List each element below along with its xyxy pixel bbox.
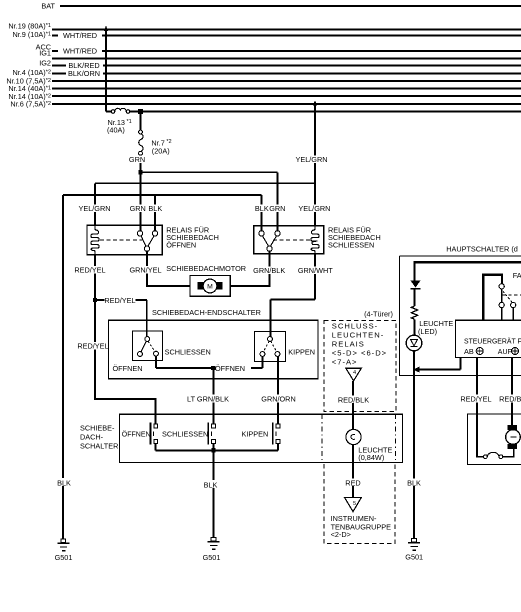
svg-text:(0,84W): (0,84W) <box>358 453 384 462</box>
svg-text:ÖFFNEN: ÖFFNEN <box>122 431 151 439</box>
svg-text:(40A): (40A) <box>107 125 125 134</box>
svg-text:RED/YEL: RED/YEL <box>74 266 105 275</box>
node Nr.4 (10A) bus line BLK/ORN <box>12 68 521 78</box>
svg-text:M: M <box>207 284 213 291</box>
box SCHIEBEDACHSCHALTER <box>80 414 403 462</box>
wire GRN rail to both relays <box>138 170 277 231</box>
node Nr.14 (40A) bus line <box>8 84 521 93</box>
svg-text:BLK: BLK <box>148 204 162 213</box>
svg-text:ÖFFNEN: ÖFFNEN <box>166 241 196 250</box>
node Nr.6 (7,5A) bus line <box>10 100 521 109</box>
lamp LEUCHTE (0,84W) <box>346 429 393 462</box>
svg-text:RED/YEL: RED/YEL <box>460 395 491 404</box>
svg-text:RELAIS: RELAIS <box>332 340 365 349</box>
wire bridge to main switch contacts <box>483 275 502 321</box>
svg-text:YEL/GRN: YEL/GRN <box>295 155 327 164</box>
svg-text:FA: FA <box>513 271 521 280</box>
svg-text:BAT: BAT <box>41 2 55 11</box>
node IG2 bus line BLK/RED <box>39 58 521 70</box>
node BAT bus line <box>41 2 521 11</box>
svg-text:RED/YEL: RED/YEL <box>104 296 135 305</box>
svg-text:WHT/RED: WHT/RED <box>63 47 97 56</box>
svg-text:SCHIEBEDACH-ENDSCHALTER: SCHIEBEDACH-ENDSCHALTER <box>152 308 261 317</box>
svg-text:BLK: BLK <box>407 478 421 487</box>
svg-text:<5-D> <6-D>: <5-D> <6-D> <box>332 349 387 358</box>
wire RED/BLK to motor box <box>499 358 521 426</box>
svg-text:LEUCHTEN-: LEUCHTEN- <box>332 330 384 339</box>
switch S1 end switch SCHLIESSEN/ÖFFNEN <box>113 331 211 373</box>
relay K1 RELAIS FÜR SCHIEBEDACH ÖFFNEN <box>87 225 219 254</box>
breaker circuit breaker <box>484 452 503 458</box>
svg-text:AB: AB <box>464 347 474 356</box>
wire RED/YEL branch to end switch <box>93 296 147 337</box>
motor M2 <box>506 425 521 449</box>
svg-text:ÖFFNEN: ÖFFNEN <box>113 364 143 373</box>
box HAUPTSCHALTER <box>399 244 521 375</box>
svg-text:<2-D>: <2-D> <box>331 530 351 539</box>
switch S2 end switch ÖFFNEN/KIPPEN <box>254 331 315 361</box>
LED D2 LEUCHTE (LED) <box>406 319 453 351</box>
wire RED/BLK triangle to lamp <box>338 381 369 430</box>
svg-text:YEL/GRN: YEL/GRN <box>298 204 330 213</box>
svg-text:SCHIEBEDACHMOTOR: SCHIEBEDACHMOTOR <box>166 264 246 273</box>
fuse Nr.7 (20A) <box>139 112 172 156</box>
box SCHLUSS-LEUCHTEN-RELAIS (dashed) <box>324 310 396 412</box>
diode D1 <box>411 281 421 306</box>
svg-text:IG2: IG2 <box>39 58 51 67</box>
wire common bus of buttons <box>156 448 278 452</box>
node ACC bus line WHT/RED <box>36 43 521 56</box>
wire YEL/GRN rail to both relay coils <box>95 183 315 225</box>
svg-text:WHT/RED: WHT/RED <box>63 31 97 40</box>
svg-text:HAUPTSCHALTER (d: HAUPTSCHALTER (d <box>446 244 518 253</box>
svg-text:SCHIEBE-: SCHIEBE- <box>80 423 115 432</box>
svg-text:KIPPEN: KIPPEN <box>288 347 315 356</box>
wire GRN/BLK relay K2 to motor <box>230 251 285 286</box>
wire RED lamp to triangle 5 <box>344 445 362 498</box>
connector terminal 4 (triangle) <box>346 368 361 381</box>
node Nr.14 (10A) bus line <box>8 92 521 101</box>
fuse Nr.13 (40A) <box>107 108 132 134</box>
switch S6 main switch <box>499 271 521 320</box>
node Nr.19 (80A) bus line <box>8 22 521 31</box>
svg-text:BLK: BLK <box>204 480 218 489</box>
svg-text:IG1: IG1 <box>39 49 51 58</box>
svg-text:LT GRN/BLK: LT GRN/BLK <box>187 395 229 404</box>
switch S5 push button KIPPEN <box>242 423 281 451</box>
svg-text:BLK: BLK <box>255 204 269 213</box>
ground G501 middle <box>203 538 221 563</box>
svg-text:(LED): (LED) <box>418 327 437 336</box>
svg-text:GRN/ORN: GRN/ORN <box>261 395 295 404</box>
svg-text:BLK: BLK <box>57 478 71 487</box>
svg-text:GRN/YEL: GRN/YEL <box>129 266 161 275</box>
svg-text:G501: G501 <box>405 553 423 562</box>
motor M1 SCHIEBEDACHMOTOR <box>166 264 246 296</box>
svg-text:RED: RED <box>345 478 360 487</box>
box motor unit right <box>467 414 521 465</box>
svg-text:STEUERGERÄT FÜ: STEUERGERÄT FÜ <box>464 338 521 346</box>
wire GRN/ORN to KIPPEN button <box>261 356 296 424</box>
node wire labels above relays <box>78 204 330 213</box>
connector terminal 5 (triangle) <box>345 498 362 512</box>
wire fuse output line to right edge <box>130 111 521 113</box>
svg-text:(20A): (20A) <box>152 146 170 155</box>
svg-text:Nr.9 (10A)*1: Nr.9 (10A)*1 <box>12 30 51 39</box>
wire BLK from buttons to ground <box>202 450 219 537</box>
svg-text:KIPPEN: KIPPEN <box>242 430 269 439</box>
node IG1 bus line <box>39 49 521 59</box>
svg-text:Nr.6 (7,5A)*2: Nr.6 (7,5A)*2 <box>10 100 51 109</box>
svg-text:YEL/GRN: YEL/GRN <box>78 204 110 213</box>
wire GRN/WHT relay K2 to end switch <box>271 254 334 337</box>
wire BLK left ground rail <box>55 195 72 539</box>
svg-text:GRN: GRN <box>130 204 146 213</box>
svg-text:GRN: GRN <box>269 204 285 213</box>
svg-text:SCHLIESSEN: SCHLIESSEN <box>162 430 208 439</box>
wire LT GRN/BLK to SCHLIESSEN button <box>186 368 231 424</box>
wire from STEUERGERÄT to LED cathode with arrow <box>413 358 461 373</box>
svg-text:5: 5 <box>353 501 356 507</box>
resistor R1 <box>411 306 417 319</box>
svg-text:GRN/WHT: GRN/WHT <box>298 266 333 275</box>
svg-text:G501: G501 <box>55 553 73 562</box>
svg-text:(4-Türer): (4-Türer) <box>364 310 393 319</box>
node Nr.9 (10A) bus line WHT/RED <box>12 30 521 40</box>
wire inside motor box <box>477 414 484 457</box>
switch S4 push button SCHLIESSEN <box>162 423 216 451</box>
wire feed from Nr.19 bus down to fuse Nr.13 <box>104 26 112 112</box>
svg-text:RED/YEL: RED/YEL <box>77 342 108 351</box>
ground G501 left <box>55 539 73 562</box>
wire GRN/YEL relay K1 to motor <box>129 251 190 286</box>
wire thick feed inside HAUPTSCHALTER <box>415 262 521 281</box>
svg-text:ÖFFNEN: ÖFFNEN <box>215 364 245 373</box>
svg-text:BLK/ORN: BLK/ORN <box>68 69 100 78</box>
box INSTRUMENTENBAUGRUPPE (dashed) <box>324 464 395 544</box>
svg-text:AUF: AUF <box>498 349 512 356</box>
wire link between end switches <box>156 356 263 373</box>
svg-text:SCHALTER: SCHALTER <box>80 441 118 450</box>
svg-text:<7-A>: <7-A> <box>332 358 358 367</box>
switch S3 push button ÖFFNEN <box>122 423 158 451</box>
wire RED/YEL from relay K1 coil down <box>74 255 109 400</box>
box SCHIEBEDACH-ENDSCHALTER <box>109 308 319 379</box>
svg-text:G501: G501 <box>203 553 221 562</box>
box STEUERGERÄT <box>455 320 521 357</box>
node Nr.10 (7,5A) bus line <box>6 76 521 85</box>
svg-text:4: 4 <box>353 370 356 376</box>
wire YEL/GRN drop from Nr.6 bus <box>295 100 327 225</box>
wire RED/YEL to motor box <box>460 358 491 415</box>
ground G501 right <box>405 539 423 562</box>
wire RED/YEL elbow to ÖFFNEN button <box>95 399 156 424</box>
svg-text:SCHLIESSEN: SCHLIESSEN <box>165 347 211 356</box>
svg-text:RED/BLK: RED/BLK <box>338 395 369 404</box>
node junction fuse line / GRN drop <box>138 109 143 114</box>
svg-text:GRN/BLK: GRN/BLK <box>253 266 285 275</box>
wire BLK rail relays to ground rail <box>63 195 262 231</box>
svg-text:SCHLUSS-: SCHLUSS- <box>332 321 378 330</box>
svg-text:SCHLIESSEN: SCHLIESSEN <box>328 241 374 250</box>
svg-text:RED/B: RED/B <box>499 395 521 404</box>
wire BLK LED to ground <box>406 351 423 539</box>
wire breaker to motor <box>503 449 514 457</box>
wire GRN from fuse Nr.7 down <box>127 155 147 172</box>
svg-text:GRN: GRN <box>129 155 145 164</box>
svg-text:DACH-: DACH- <box>80 432 104 441</box>
relay K2 RELAIS FÜR SCHIEBEDACH SCHLIESSEN <box>254 225 381 253</box>
